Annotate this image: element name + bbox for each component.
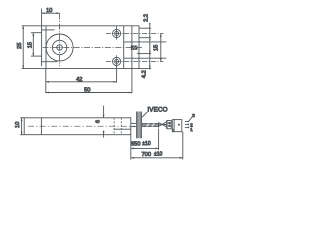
- svg-text:4.2: 4.2: [142, 70, 148, 78]
- flange grommet: [136, 112, 141, 139]
- big hole middle: [52, 40, 66, 54]
- tick lower on x41.6: [42, 61, 58, 63]
- dim 15 left: [31, 33, 42, 56]
- upper hole centerline: [106, 33, 164, 35]
- plate left edge: [45, 26, 47, 69]
- svg-text:3: 3: [192, 113, 195, 119]
- shrink tube: [142, 122, 158, 127]
- leader pin3: [189, 117, 192, 121]
- svg-text:2.2: 2.2: [143, 14, 149, 22]
- dim 6: [103, 106, 105, 138]
- big hole inner: [57, 45, 63, 51]
- svg-text:±10: ±10: [142, 141, 151, 147]
- dim 10 side: [20, 118, 24, 135]
- dim 10 top: [42, 12, 60, 14]
- lower hole centerline: [106, 60, 164, 62]
- inner tab line: [114, 128, 131, 130]
- tab upper edge: [124, 41, 167, 43]
- dim 2.2 / 4.2 vertical: [149, 23, 151, 70]
- pin 3 line: [185, 121, 189, 123]
- svg-text:15: 15: [27, 42, 33, 48]
- right short ext line A: [139, 27, 151, 29]
- svg-text:±10: ±10: [154, 152, 163, 158]
- dim 650: [131, 129, 159, 160]
- wires bowtie: [159, 122, 167, 127]
- dim 700: [131, 132, 183, 160]
- right short ext line B: [139, 37, 151, 39]
- lower small hole: [113, 55, 121, 68]
- plate top edge: [22, 25, 139, 27]
- IVECO leader: [142, 112, 147, 117]
- tick upper on x41.6: [42, 29, 55, 31]
- side centerline: [28, 125, 135, 127]
- svg-text:700: 700: [142, 152, 152, 158]
- hidden line 2: [120, 118, 122, 135]
- hidden line 1: [113, 118, 115, 135]
- dim 15 right: [160, 34, 162, 62]
- svg-text:1: 1: [190, 127, 193, 133]
- bend line: [123, 26, 125, 69]
- svg-text:650: 650: [131, 142, 141, 148]
- svg-text:50: 50: [84, 88, 90, 94]
- slot dark: [131, 46, 138, 50]
- stub: [131, 123, 137, 126]
- main centerline: [43, 47, 144, 49]
- tab lower edge: [124, 57, 167, 59]
- dim 42: [46, 69, 117, 94]
- pin 1 line: [185, 127, 189, 129]
- svg-text:15: 15: [153, 45, 159, 51]
- plate right edge: [138, 26, 140, 69]
- plate bottom edge: [22, 68, 152, 70]
- pin 2 line: [185, 124, 189, 126]
- big hole vertical centerline: [59, 13, 61, 66]
- svg-text:42: 42: [76, 77, 82, 83]
- long extension line x41.6: [41, 8, 43, 66]
- upper small hole: [113, 26, 121, 40]
- big hole outer: [46, 34, 73, 61]
- side view body: [24, 118, 131, 135]
- svg-text:10: 10: [15, 122, 21, 128]
- svg-text:IVECO: IVECO: [147, 106, 167, 113]
- right short ext line C: [137, 53, 151, 55]
- connector part B: [172, 120, 182, 132]
- dim 50: [46, 26, 132, 94]
- connector front plate: [166, 121, 168, 129]
- svg-text:25: 25: [17, 43, 23, 49]
- svg-text:6: 6: [95, 120, 101, 123]
- dim 25: [22, 26, 24, 69]
- svg-text:10: 10: [46, 8, 52, 14]
- connector part A: [167, 121, 171, 129]
- side bend line: [40, 118, 42, 135]
